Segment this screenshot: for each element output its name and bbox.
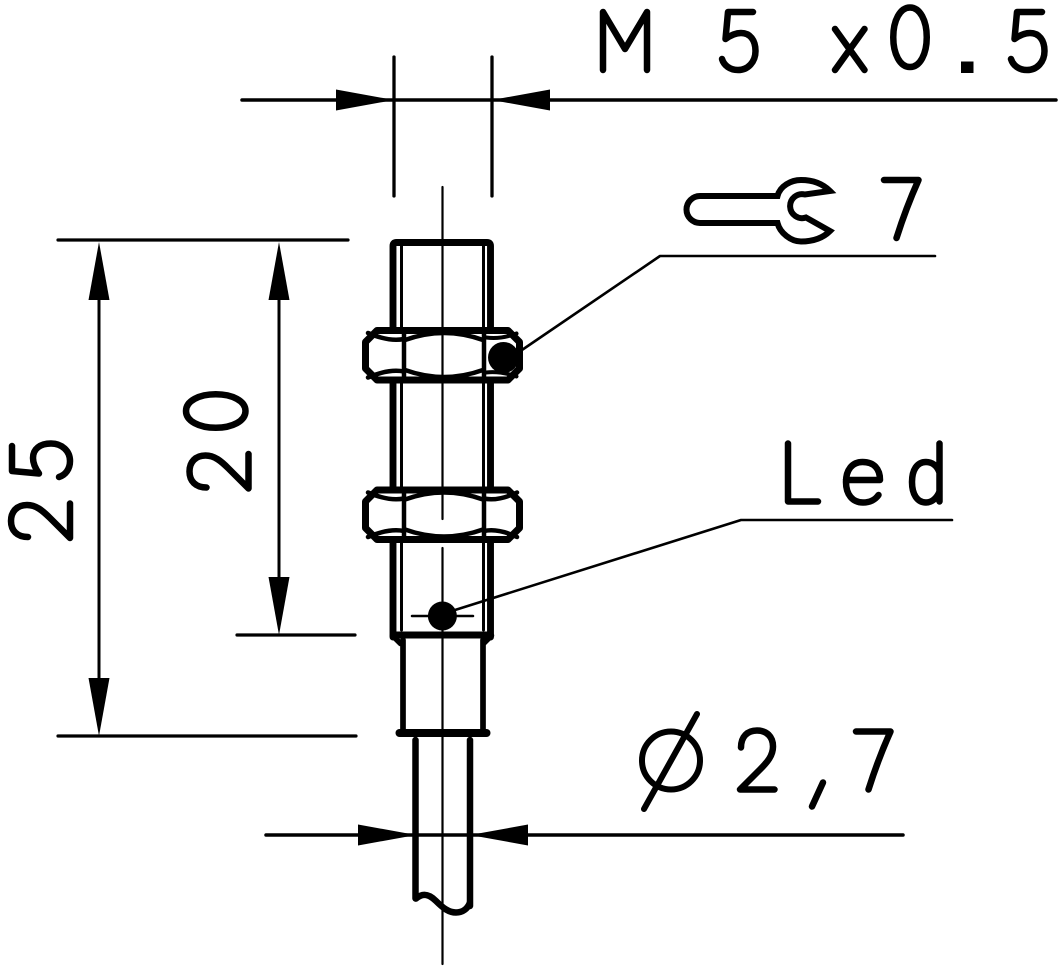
- left dims: top tick: [58, 238, 348, 241]
- text M 5 x0.5: [603, 8, 1045, 74]
- dim 25 arrow up: [89, 242, 110, 300]
- bottom dimension arrow left: [358, 825, 416, 846]
- dim 20 line: [278, 300, 281, 577]
- leader line to LED: [455, 520, 952, 610]
- hex nut 2: [366, 490, 520, 540]
- housing bottom edge: [400, 729, 487, 737]
- bottom dimension line: [266, 833, 903, 837]
- cable break wave: [416, 895, 470, 913]
- text 2,7: [740, 731, 891, 807]
- leader line to wrench flat: [519, 256, 935, 352]
- threaded barrel body: [393, 243, 491, 638]
- wrench icon: [687, 180, 831, 242]
- thread minor line left: [400, 246, 403, 630]
- LED tick line: [412, 615, 473, 618]
- wrench-flat black dot on nut 1: [488, 342, 519, 373]
- LED black dot: [428, 602, 457, 631]
- text Led: [788, 444, 940, 503]
- dim 20 arrow up: [269, 242, 290, 300]
- thread minor line right: [482, 246, 485, 630]
- dim 25 line: [98, 300, 101, 678]
- collar chamfer right: [484, 636, 492, 644]
- dim 20 arrow down: [269, 577, 290, 635]
- dim 20 bottom tick: [237, 633, 355, 636]
- top dimension arrow left: [336, 90, 394, 111]
- cable: [416, 740, 471, 906]
- top dimension extension line right: [490, 57, 493, 196]
- top dimension line: [242, 98, 1056, 102]
- center line: [441, 187, 443, 964]
- text 7 (wrench size): [884, 180, 919, 238]
- diameter symbol: [642, 714, 700, 809]
- text 25 (rotated): [11, 444, 70, 539]
- collar chamfer left: [393, 636, 401, 644]
- top dimension arrow right: [492, 90, 550, 111]
- text 20 (rotated): [186, 394, 249, 488]
- hex nut 1: [366, 331, 520, 381]
- dim 25 arrow down: [89, 678, 110, 736]
- bottom dimension arrow right: [470, 825, 528, 846]
- barrel bottom collar: [394, 632, 490, 639]
- dim 25 bottom tick: [58, 734, 356, 737]
- sensor housing body: [403, 640, 483, 733]
- top dimension extension line left: [392, 57, 395, 196]
